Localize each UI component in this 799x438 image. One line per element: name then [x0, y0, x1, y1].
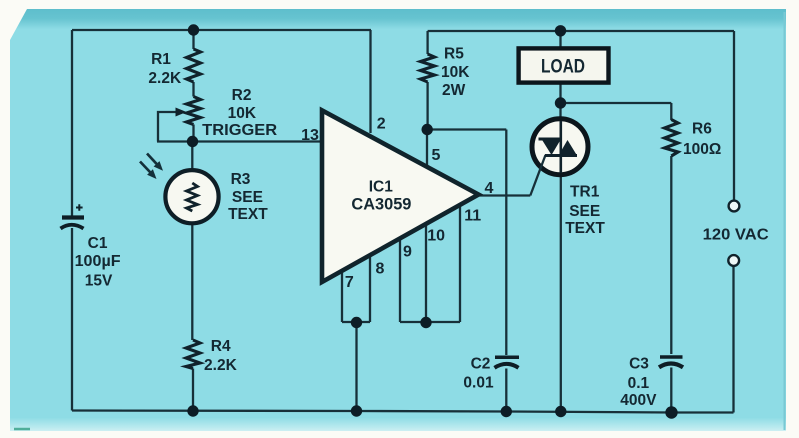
wire pins7-8 node to ground rail: [355, 322, 357, 411]
svg-text:SEE: SEE: [232, 189, 263, 206]
svg-text:R5: R5: [444, 46, 464, 63]
capacitor C1 plus sign: [76, 204, 83, 211]
wire R3 top lead: [191, 142, 193, 172]
svg-text:2: 2: [377, 115, 386, 132]
svg-text:2.2K: 2.2K: [204, 357, 238, 374]
svg-text:10K: 10K: [228, 105, 257, 122]
wire triac bottom to bottom rail: [560, 173, 562, 412]
svg-text:100Ω: 100Ω: [683, 141, 721, 158]
wire pin 7 lead: [341, 268, 343, 322]
resistor R4: [186, 340, 200, 369]
capacitor C1 bottom plate: [61, 225, 84, 229]
node bottom rail C2 junction: [501, 406, 512, 417]
node trigger junction: [187, 136, 198, 147]
svg-text:CA3059: CA3059: [351, 196, 411, 214]
svg-text:IC1: IC1: [369, 178, 394, 195]
svg-text:R4: R4: [211, 338, 231, 355]
resistor R5: [421, 54, 435, 82]
wire pin 11 lead: [459, 202, 461, 322]
svg-text:2W: 2W: [442, 82, 466, 99]
wire pin 10 lead: [425, 221, 427, 322]
triac TR1 right triangle: [559, 140, 578, 156]
node bottom rail pin7-8 junction: [351, 405, 362, 416]
wire pins 7-8 link: [342, 321, 370, 323]
svg-text:TRIGGER: TRIGGER: [202, 122, 277, 139]
svg-text:13: 13: [301, 127, 319, 144]
svg-text:5: 5: [432, 147, 441, 164]
node pins 7-8 junction: [351, 317, 362, 328]
wire R1-R2 link: [192, 82, 194, 97]
wire right lower vertical to lower terminal: [732, 266, 734, 413]
wire right upper vertical to upper terminal: [733, 31, 735, 201]
wire C2 bottom lead: [505, 369, 507, 412]
triac TR1 left triangle: [542, 139, 562, 155]
capacitor C1 top plate: [62, 215, 84, 219]
wire R3 to R4: [191, 222, 193, 340]
wire pin 4 horizontal: [479, 194, 531, 196]
wire R6 to C3: [670, 156, 672, 354]
op-amp style IC1 CA3059 triangle: [322, 110, 479, 282]
triac TR1 bottom bar: [545, 154, 577, 157]
svg-text:400V: 400V: [620, 392, 657, 409]
wire top-left rail: [72, 29, 371, 31]
capacitor C2 bottom plate: [495, 364, 519, 368]
wire pin 2 vertical: [369, 30, 371, 133]
capacitor C3 bottom plate: [659, 363, 683, 367]
node pins 9-10-11 junction: [420, 317, 431, 328]
wire R2 wiper: [158, 112, 177, 142]
svg-text:4: 4: [485, 180, 494, 197]
LOAD box: [519, 48, 609, 82]
svg-text:120 VAC: 120 VAC: [703, 227, 769, 244]
wire bottom rail: [72, 411, 734, 413]
svg-text:R2: R2: [232, 87, 252, 104]
svg-text:0.01: 0.01: [463, 375, 494, 392]
svg-text:R3: R3: [231, 171, 251, 188]
wire node to R6 branch: [561, 102, 672, 104]
wire R6 top lead: [670, 103, 672, 120]
wire left rail upper: [71, 30, 73, 216]
node bottom rail R4 junction: [187, 405, 198, 416]
wire left rail lower: [71, 228, 73, 411]
node top rail LOAD junction: [555, 25, 566, 36]
svg-text:2.2K: 2.2K: [148, 70, 182, 87]
potentiometer R2 wiper arrow: [176, 108, 187, 117]
svg-text:C1: C1: [88, 235, 108, 252]
triac TR1 main vertical: [559, 121, 562, 173]
resistor R6: [665, 120, 679, 157]
wire LOAD top lead: [559, 31, 561, 49]
svg-text:SEE: SEE: [569, 203, 600, 220]
node triac top junction: [555, 97, 566, 108]
svg-text:R6: R6: [692, 120, 712, 137]
node bottom rail C3 junction: [665, 406, 677, 418]
node bottom rail triac junction: [555, 406, 566, 417]
svg-text:C2: C2: [471, 356, 491, 373]
svg-text:10: 10: [427, 228, 445, 245]
wire top-right rail: [428, 30, 734, 32]
node top rail R1 junction: [188, 24, 199, 35]
wire C3 bottom lead: [670, 368, 672, 413]
wire triac gate diagonal: [530, 155, 545, 196]
svg-text:8: 8: [376, 261, 385, 278]
terminal 120VAC lower: [728, 255, 739, 266]
wire node trigger to pin 13: [157, 140, 324, 142]
wire pin 9 lead: [399, 236, 401, 322]
wire pins 9-10-11 link: [400, 321, 460, 323]
svg-text:LOAD: LOAD: [541, 56, 585, 77]
svg-text:R1: R1: [151, 51, 171, 68]
potentiometer R2: [187, 97, 201, 125]
photoresistor R3 element: [187, 183, 198, 211]
svg-text:11: 11: [464, 208, 481, 225]
wire R5 to pin5 node: [426, 82, 428, 130]
wire R1 top lead: [192, 30, 194, 49]
wire pin 5 lead: [426, 130, 428, 168]
svg-text:C3: C3: [629, 356, 649, 373]
photoresistor R3 light arrow 2: [140, 162, 157, 180]
wire R5 top lead: [426, 31, 428, 54]
svg-text:TEXT: TEXT: [565, 220, 605, 237]
svg-text:0.1: 0.1: [628, 375, 650, 392]
svg-text:15V: 15V: [85, 273, 113, 290]
wire R2 bottom lead: [192, 125, 194, 142]
svg-text:100µF: 100µF: [75, 253, 121, 270]
wire R4 bottom lead: [192, 369, 194, 412]
triac TR1 top bar: [539, 138, 563, 141]
terminal 120VAC upper: [729, 201, 740, 212]
svg-text:TEXT: TEXT: [228, 206, 268, 223]
resistor R1: [187, 49, 201, 82]
capacitor C2 top plate: [495, 355, 519, 359]
triac TR1 body: [532, 119, 588, 175]
wire pin 8 lead: [369, 253, 371, 322]
wire pin5 node to C2 branch: [427, 128, 506, 130]
photoresistor R3 light arrow 1: [147, 154, 163, 171]
svg-text:10K: 10K: [441, 64, 470, 81]
photoresistor R3 body: [165, 170, 218, 223]
svg-text:9: 9: [403, 244, 412, 261]
wire LOAD bottom to triac: [559, 83, 561, 121]
wire C2 vertical upper: [505, 130, 507, 356]
capacitor C3 top plate: [660, 355, 683, 359]
node R5 pin5 junction: [422, 124, 433, 135]
svg-text:7: 7: [345, 274, 354, 291]
svg-text:TR1: TR1: [570, 183, 600, 200]
